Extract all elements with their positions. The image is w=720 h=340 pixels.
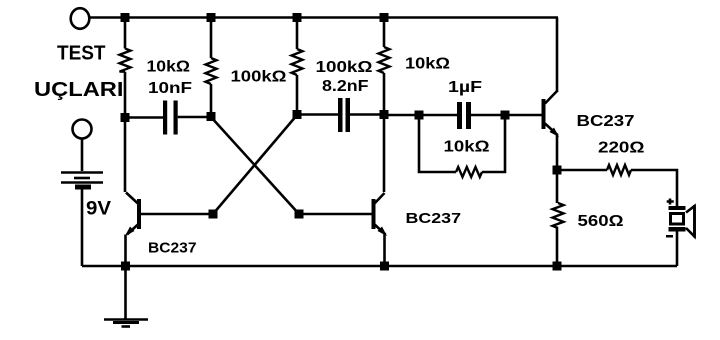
wire Q2 emitter to rail — [383, 235, 386, 267]
capacitor C2 8.2nF — [338, 98, 343, 132]
svg-text:10kΩ: 10kΩ — [405, 56, 450, 73]
capacitor C1 10nF — [163, 101, 167, 135]
svg-text:100kΩ: 100kΩ — [231, 69, 287, 86]
resistor R3 100k — [292, 49, 303, 75]
wire C1 right lead — [178, 116, 211, 119]
resistor R4 10k — [379, 47, 390, 73]
svg-text:BC237: BC237 — [148, 240, 197, 257]
wire battery to bottom rail — [81, 190, 84, 267]
wire branch4 lower lead — [383, 73, 386, 192]
wire C2 left lead — [297, 113, 338, 116]
svg-text:560Ω: 560Ω — [578, 213, 624, 230]
svg-text:TEST: TEST — [57, 43, 106, 65]
node I (emitter/220/560 junction) — [553, 166, 562, 175]
resistor R7 560 — [553, 203, 564, 228]
svg-text:9V: 9V — [86, 199, 111, 220]
wire cross diagonal 1 — [211, 117, 299, 214]
node D (R4/C3/Q2 collector) — [380, 110, 389, 119]
node A (R1/C1/Q1 collector) — [121, 113, 130, 122]
node K (Q2 emitter) — [380, 262, 389, 271]
svg-text:100kΩ: 100kΩ — [316, 59, 373, 76]
terminal J2 (test probe bottom) — [73, 120, 92, 139]
wire bottom rail — [82, 265, 677, 268]
wire J2 to battery — [81, 139, 84, 172]
svg-text:10kΩ: 10kΩ — [444, 139, 490, 156]
speaker LS1 — [667, 199, 674, 205]
node L (560 bottom) — [553, 262, 562, 271]
wire branch2 lower lead — [210, 84, 213, 117]
wire C2 right lead — [350, 113, 384, 116]
wire Q3 emitter down — [556, 134, 559, 170]
wire branch1 upper lead — [124, 18, 127, 49]
resistor R5 10k parallel — [456, 167, 482, 177]
wire Q1 emitter to rail — [124, 235, 127, 267]
capacitor C3 1uF — [457, 102, 462, 129]
node H (R5 right tap) — [501, 111, 510, 120]
wire 560 leads — [556, 174, 559, 266]
svg-text:UÇLARI: UÇLARI — [34, 79, 124, 101]
ground — [104, 318, 148, 321]
svg-text:220Ω: 220Ω — [598, 140, 645, 157]
resistor R2 100k — [206, 58, 217, 84]
wire branch3 upper lead — [296, 18, 299, 50]
wire C1 left lead — [125, 116, 163, 119]
transistor Q1 BC237 — [141, 213, 213, 216]
node top rail junction 4 — [380, 13, 389, 22]
wire speaker bottom lead — [676, 232, 679, 267]
wire cross diagonal 2 — [213, 115, 297, 214]
node E (cross lower-left, Q1 base) — [209, 210, 218, 219]
node C (R3/C2/cross) — [293, 110, 302, 119]
svg-text:BC237: BC237 — [406, 210, 462, 227]
node J (Q1 emitter / ground) — [121, 262, 130, 271]
node top rail junction 3 — [293, 13, 302, 22]
resistor R1 10k — [120, 49, 131, 72]
wire R5 loop left — [419, 115, 456, 172]
wire branch3 lower lead — [296, 75, 299, 115]
svg-text:10nF: 10nF — [148, 80, 192, 97]
svg-text:BC237: BC237 — [577, 113, 635, 130]
node F (cross lower-right, Q2 base) — [295, 210, 304, 219]
wire C3 run right — [471, 114, 542, 117]
terminal J1 (test probe top) — [71, 8, 90, 29]
wire R5 loop right — [482, 115, 505, 172]
svg-text:8.2nF: 8.2nF — [322, 78, 369, 95]
wire right vertical (rail to Q3 collector) — [556, 18, 559, 93]
svg-text:1µF: 1µF — [448, 79, 482, 96]
svg-text:10kΩ: 10kΩ — [147, 59, 191, 76]
node top rail junction 2 — [207, 13, 216, 22]
wire branch4 upper lead — [383, 18, 386, 48]
battery BT1 9V — [61, 171, 103, 174]
wire 220 right lead to speaker — [631, 170, 677, 206]
wire ground lead — [124, 266, 127, 319]
wire 220 left lead — [557, 169, 607, 172]
node B (R2/C1/cross) — [207, 112, 216, 121]
node top rail junction 1 — [121, 13, 130, 22]
node G (R5 left tap) — [415, 111, 424, 120]
wire branch2 upper lead — [210, 18, 213, 59]
wire branch1 lower lead — [124, 72, 127, 192]
wire C3 run left — [384, 114, 457, 117]
transistor Q2 BC237 — [299, 213, 373, 216]
transistor Q3 BC237 — [542, 99, 546, 129]
wire top rail — [89, 16, 558, 19]
resistor R6 220 — [607, 165, 631, 175]
